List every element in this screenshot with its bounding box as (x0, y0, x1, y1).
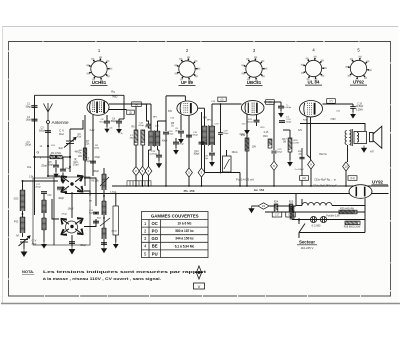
capacitor C13 padder (69, 241, 75, 244)
svg-text:Av. 152: Av. 152 (254, 188, 265, 192)
power line lower (292, 219, 365, 221)
wire coil to CV (22, 233, 24, 237)
junction R1/C5 (55, 156, 57, 158)
capacitor C9 (178, 131, 184, 134)
resistor R14 (245, 138, 249, 151)
ground left of diamond21 (249, 206, 254, 213)
capacitor C16 (163, 132, 169, 135)
svg-text:OC: OC (152, 221, 158, 226)
wire below C4 (62, 173, 64, 179)
svg-text:6 C.680: 6 C.680 (312, 225, 321, 228)
svg-text:170V: 170V (330, 119, 336, 121)
wire branch R18 (283, 129, 290, 131)
alignment diamond 9 (308, 160, 315, 169)
ground under C5 (54, 172, 58, 177)
svg-text:Ph. 156: Ph. 156 (184, 189, 195, 193)
wire IF2 sec to tube3 grid (212, 103, 242, 105)
variable capacitor CV Osc (64, 138, 76, 148)
svg-text:R24: R24 (274, 202, 279, 204)
mains switch lever (299, 224, 305, 233)
tube socket UBC81 (top view) (244, 58, 265, 79)
ground under 1000pF (279, 111, 284, 117)
ground tube2 cathode (179, 137, 184, 143)
wire to choke (296, 205, 302, 207)
svg-text:1kpf: 1kpf (58, 148, 63, 150)
wire below R18 (289, 152, 291, 160)
ground under pot (113, 242, 118, 248)
wire down from C16 (165, 135, 167, 187)
svg-text:(5): (5) (221, 99, 224, 102)
resistor R4 (83, 148, 86, 160)
wire: grid line down to C16 (165, 96, 167, 131)
svg-text:PO: PO (152, 229, 159, 234)
wire choke to rectifier (332, 205, 365, 207)
wire diamond21 left (252, 205, 258, 207)
svg-text:47kpf: 47kpf (178, 144, 184, 146)
capacitor 1000pF (278, 106, 284, 109)
wire above switch (298, 220, 300, 225)
wire tube2 grid entry (184, 96, 186, 102)
triode-heptode U1 UCH81 envelope (87, 99, 109, 115)
svg-text:1.000pf: 1.000pf (284, 107, 292, 109)
junction on upper bus x=201.5 (201, 185, 203, 187)
svg-text:30kpf: 30kpf (47, 165, 53, 167)
capacitor C1 (32, 105, 38, 108)
svg-text:18kpf: 18kpf (192, 135, 198, 137)
svg-text:PU: PU (152, 251, 158, 256)
svg-text:BE: BE (152, 244, 158, 249)
IF2 core line (207, 125, 209, 146)
power bottom line (299, 232, 365, 234)
tube socket UCH81 (top view) (89, 58, 110, 79)
wire above 1000pF (280, 102, 282, 106)
junction GO coil top (22, 180, 24, 182)
antenna terminal circle (47, 121, 50, 124)
junction padder (103, 195, 105, 197)
resistor R18 (288, 138, 292, 152)
wire above C24 (352, 104, 354, 107)
svg-text:47kpf: 47kpf (138, 125, 144, 127)
schematic border frame (9, 42, 391, 297)
ground under C24 (351, 112, 356, 118)
svg-text:47kpf: 47kpf (94, 157, 100, 159)
wire tube4 cathode down (310, 117, 312, 160)
svg-text:Les tensions indiquées sont me: Les tensions indiquées sont mesurées par… (43, 269, 207, 274)
svg-text:460pf: 460pf (111, 231, 117, 233)
svg-text:12V: 12V (298, 130, 303, 132)
wire x302 drop (301, 148, 303, 186)
wire: CV to osc grid (69, 129, 71, 136)
PO antenna coil (20, 217, 25, 233)
wire coil top to wafer S1 (23, 180, 59, 182)
wire pot box top (226, 150, 228, 156)
capacitor C2 (32, 119, 38, 122)
alignment diamond 5b (198, 168, 205, 177)
svg-text:(12): (12) (302, 177, 306, 180)
wire to cap (275, 101, 281, 103)
svg-text:30V: 30V (252, 147, 257, 149)
heater bus wire lower (65, 193, 389, 195)
wire box a1 to C15 (141, 104, 148, 124)
switch assembly box right (54, 177, 90, 245)
svg-text:UL 84: UL 84 (308, 80, 320, 85)
wire: AGC grid line across top (35, 94, 125, 96)
ground under C4 (61, 178, 65, 183)
wire under C18 (158, 158, 160, 162)
resistor R25 (289, 204, 293, 212)
wire B+ to output transformer (300, 124, 365, 132)
thermistor circle 1 (310, 216, 316, 222)
svg-text:47kpf: 47kpf (85, 161, 91, 163)
wire pot bottom (115, 235, 117, 242)
wire IF1 pri bottom (149, 146, 152, 150)
svg-text:10,5kpf: 10,5kpf (356, 106, 364, 108)
wire rectifier cathode down (364, 198, 366, 232)
trimmer slash over padder top (100, 177, 109, 186)
IF1 primary winding (149, 131, 154, 146)
dial lamp ladder on heater bus (127, 181, 151, 186)
svg-text:47kpf: 47kpf (168, 134, 174, 136)
wire detector return down (239, 173, 241, 187)
wire blob to coil (43, 194, 45, 200)
capacitor C11 (199, 142, 205, 145)
band switch wafer S1 contacts (61, 175, 83, 193)
rectifier U5 UY92 envelope (349, 185, 372, 199)
wire IF1 pri top (150, 104, 152, 131)
capacitor C19 (218, 133, 223, 135)
svg-text:L: L (51, 153, 53, 157)
node label box a1 (132, 102, 142, 107)
svg-text:à la masse , réseau 110V , CV: à la masse , réseau 110V , CV ouvert , s… (43, 276, 161, 281)
ground tube3 cathode (245, 128, 250, 134)
wire detector return (205, 172, 241, 174)
padder winding mid (102, 201, 106, 215)
svg-text:47pf: 47pf (77, 137, 82, 139)
junction on upper bus x=142.5 (142, 185, 144, 187)
wire between coils (22, 211, 24, 217)
svg-text:C10: C10 (73, 162, 78, 164)
wire tube4 plate to C24 (323, 103, 354, 105)
svg-text:6,1 à 5,94 Mc: 6,1 à 5,94 Mc (175, 244, 195, 248)
capacitor padder mid (93, 221, 99, 224)
svg-text:C17: C17 (275, 214, 280, 217)
wire: antenna down to band switch (47, 124, 49, 177)
wire above C18 (158, 150, 160, 155)
svg-text:R25: R25 (289, 202, 294, 204)
wire C15 into IF1 (149, 126, 152, 128)
svg-text:0,8V: 0,8V (240, 134, 245, 136)
junction on upper bus x=311 (310, 185, 312, 187)
wire wafer S1 lower right (84, 191, 90, 196)
wire tube3 plate out (264, 101, 275, 103)
svg-text:50kpf: 50kpf (247, 122, 253, 124)
svg-text:10: 10 (344, 165, 348, 169)
svg-text:UF 89: UF 89 (181, 80, 194, 85)
svg-text:GAMMES COUVERTES: GAMMES COUVERTES (151, 213, 199, 218)
resistor R24 (274, 204, 278, 212)
wire IF2 sec top (211, 104, 213, 126)
wire box a1 down (135, 107, 137, 131)
svg-text:0,2V: 0,2V (90, 130, 95, 132)
svg-text:R17: R17 (282, 139, 287, 141)
svg-text:50pf: 50pf (89, 213, 94, 215)
band switch wafer S2 contacts (61, 218, 83, 236)
wire: osc section down (69, 152, 71, 167)
svg-text:110-245 V: 110-245 V (301, 246, 314, 250)
svg-text:15mA: 15mA (231, 151, 237, 154)
svg-text:19 à 6 Mc: 19 à 6 Mc (177, 222, 191, 226)
resistor R1 47k (50, 155, 62, 158)
svg-text:7MΩ: 7MΩ (112, 95, 118, 99)
resistor R5 (134, 130, 138, 145)
svg-text:C2a: C2a (27, 167, 32, 169)
svg-text:43kpf: 43kpf (162, 141, 168, 143)
detector volume potentiometer box (223, 156, 232, 172)
svg-text:(7): (7) (329, 100, 332, 103)
ground under padder (101, 246, 106, 253)
oscillator coil winding upper (42, 200, 46, 213)
svg-text:170pf: 170pf (73, 165, 79, 167)
svg-text:0,15: 0,15 (264, 132, 269, 134)
svg-text:Antenne: Antenne (52, 120, 70, 125)
wire below C6 (118, 124, 120, 128)
voltmeter diamond symbol (195, 266, 203, 279)
svg-text:R1 47kΩ: R1 47kΩ (51, 152, 61, 155)
wire below R5 (135, 145, 137, 166)
wire below C8 (106, 124, 108, 128)
alignment diamond 5a (186, 168, 193, 177)
wire: UCH81 screen down (92, 115, 94, 176)
junction C14 (95, 212, 97, 214)
svg-text:50kpf: 50kpf (99, 122, 105, 124)
wire cap to choke (301, 199, 303, 206)
wire: UCH81 cathode down (84, 115, 86, 186)
svg-text:250pf: 250pf (25, 145, 31, 147)
wire to C4 (62, 157, 64, 169)
wire pot top (115, 194, 117, 207)
junction on AGC line (33, 156, 35, 158)
wire IF2 pri bottom down (204, 145, 206, 173)
wire IF2 pri top lead (204, 108, 206, 126)
wire wafer S1 to padder (84, 178, 96, 206)
GO antenna coil (20, 190, 25, 211)
capacitor C15 (146, 124, 151, 126)
wire corner to C6 (119, 118, 124, 120)
wire to R1 (35, 156, 51, 158)
svg-text:R8 25k: R8 25k (91, 181, 99, 183)
wire below 1000pF (280, 109, 282, 112)
node label box 5 (218, 97, 226, 101)
svg-text:500pf: 500pf (286, 122, 292, 124)
svg-text:50pf: 50pf (204, 158, 209, 160)
junction on upper bus x=247 (246, 185, 248, 187)
resistor R29 (339, 210, 357, 214)
ground under R18 (288, 160, 293, 166)
trimmer slash over padder lower (100, 218, 110, 226)
ground under osc coil (42, 242, 47, 248)
svg-text:H.P.: H.P. (370, 152, 375, 154)
wire below R6 (142, 145, 144, 166)
output transformer primary loops 2 (349, 131, 351, 145)
wire transformer to diamond (347, 145, 349, 162)
antenna symbol (44, 103, 53, 121)
wire diamond21 right (269, 205, 296, 207)
junction on upper bus x=240 (239, 185, 241, 187)
junction padder mid (103, 217, 105, 219)
wire: IF1 secondary to UF89 grid (166, 95, 185, 97)
junction antenna/wafer (47, 175, 49, 177)
secondary loops (357, 133, 359, 143)
wire diamond9 to bus (310, 169, 312, 186)
capacitor near wafer S1 (57, 187, 63, 190)
svg-text:R16: R16 (263, 135, 268, 138)
ground under C17 (174, 148, 179, 154)
tube socket UY92 (top view) (348, 58, 369, 79)
resistor R16 (268, 139, 272, 148)
node box PO (272, 212, 282, 217)
svg-text:C24o 40μF 350V mµF: C24o 40μF 350V mµF (313, 185, 337, 188)
wire diamond3 to bus (142, 176, 144, 186)
wire diamond2 to bus (135, 176, 137, 186)
output pentode U4 UL84 envelope (300, 101, 323, 117)
table GAMMES COUVERTES (142, 212, 209, 258)
wire above diode cap (256, 115, 258, 120)
wire wafer S2 left up (52, 199, 59, 219)
svg-text:C12: C12 (194, 151, 199, 153)
capacitor C7 (90, 161, 96, 164)
wire (55, 168, 57, 172)
IF2 primary winding (202, 126, 207, 145)
svg-text:C10 170pf: C10 170pf (57, 190, 67, 192)
wire: CV osc bottom (69, 144, 71, 153)
svg-text:580 à 187 kc: 580 à 187 kc (175, 229, 194, 233)
junction osc line (69, 166, 71, 168)
alignment diamond 3a (145, 166, 152, 175)
wire diamond3a to bus (148, 176, 150, 186)
wire IF1 sec bottom (157, 146, 159, 150)
wire above C17 (175, 138, 177, 142)
svg-text:170pf: 170pf (65, 168, 71, 170)
svg-text:63V: 63V (168, 111, 173, 113)
wire plate load vertical (273, 102, 275, 150)
capacitor C18 (156, 155, 162, 158)
svg-text:V: V (198, 284, 201, 289)
junction GO/PO coils (22, 213, 24, 215)
junction padder lower (103, 242, 105, 244)
svg-text:100Ω: 100Ω (94, 148, 100, 150)
wire padder bottom (103, 239, 105, 246)
svg-text:UY92: UY92 (372, 180, 384, 185)
wire diamond10 to bus (345, 171, 347, 186)
wiper arrow in pot box (224, 159, 230, 169)
tube socket UL 84 (top view) (303, 58, 324, 79)
svg-text:PO: PO (14, 220, 19, 224)
capacitor blob on x302 (299, 157, 304, 159)
wire wafer S2 to C14 (84, 219, 96, 227)
wire above C6 (118, 119, 120, 121)
padder winding top (102, 174, 106, 190)
variable capacitor CV Acc (19, 236, 31, 246)
loudspeaker (370, 126, 382, 148)
wire (55, 160, 57, 165)
wire from R1 (62, 156, 70, 158)
svg-text:(2): (2) (129, 111, 132, 114)
padder winding lower (102, 228, 106, 239)
wire to C18 (158, 149, 160, 151)
wire below C17 (175, 145, 177, 149)
capacitor C22 (271, 151, 276, 153)
wire below C22 (273, 154, 275, 161)
svg-text:21: 21 (262, 204, 266, 208)
capacitor C4 (60, 169, 66, 172)
svg-text:R29 44Ω 4W: R29 44Ω 4W (340, 207, 354, 210)
junction K node (69, 156, 71, 158)
voltmeter V box (194, 283, 205, 289)
wire diamond6 to bus (273, 170, 275, 186)
junction on upper bus x=274 (273, 185, 275, 187)
node label box tube3 (266, 100, 275, 105)
capacitor C6 (116, 121, 122, 124)
svg-text:UCH81: UCH81 (92, 80, 107, 85)
junction on upper bus x=148.5 (148, 185, 150, 187)
wire tube2 plate to IF2 (198, 107, 205, 109)
svg-text:200pf: 200pf (223, 133, 229, 135)
wire between osc windings (43, 213, 45, 218)
wire: tube1 plate to IF1 (109, 103, 151, 105)
schematic ink group (14, 47, 389, 289)
wire diamond5a to bus (188, 177, 190, 186)
svg-text:OC: OC (48, 193, 52, 197)
svg-text:C 19: C 19 (357, 104, 363, 106)
ground output transformer (361, 146, 366, 153)
wire tube1 to box g2 (109, 109, 127, 111)
power line mid (265, 211, 365, 213)
volume potentiometer (113, 206, 119, 235)
output transformer secondary box (354, 132, 367, 144)
node label box A2 (300, 176, 309, 181)
svg-text:68kpf: 68kpf (80, 245, 86, 247)
junction C19 top (220, 103, 222, 105)
wire bus to choke (295, 194, 297, 206)
junction on upper bus x=136 (135, 185, 137, 187)
svg-text:500pf: 500pf (39, 129, 45, 132)
node label box g2 (127, 110, 135, 114)
svg-text:Secteur: Secteur (299, 240, 315, 245)
svg-text:NOTA.: NOTA. (22, 269, 34, 274)
ground under CV Acc (21, 249, 27, 256)
svg-text:0,47M: 0,47M (292, 143, 298, 145)
svg-text:4-20kpf: 4-20kpf (149, 154, 157, 156)
svg-text:R22 1k: R22 1k (319, 154, 327, 156)
junction return line (220, 172, 222, 174)
wire osc to wafer S1 (69, 167, 71, 172)
svg-text:40kpf: 40kpf (58, 198, 64, 200)
svg-text:16kpf: 16kpf (68, 209, 74, 211)
wire g3 join (307, 155, 311, 158)
wire above R18 (289, 130, 291, 138)
svg-text:4MΩ: 4MΩ (75, 152, 80, 154)
svg-text:GO: GO (14, 197, 19, 201)
band switch wafer S2 circle (66, 221, 78, 233)
ground under C8 (105, 127, 109, 132)
capacitor C on diode line (254, 120, 260, 123)
svg-text:Rg: Rg (111, 90, 115, 94)
node label box tube4 (327, 99, 336, 104)
wire padder top lead (103, 168, 105, 174)
alignment diamond 10 (343, 162, 350, 171)
wire tube2 cathode down (180, 115, 182, 130)
wire tube3 cathode down (246, 114, 248, 186)
